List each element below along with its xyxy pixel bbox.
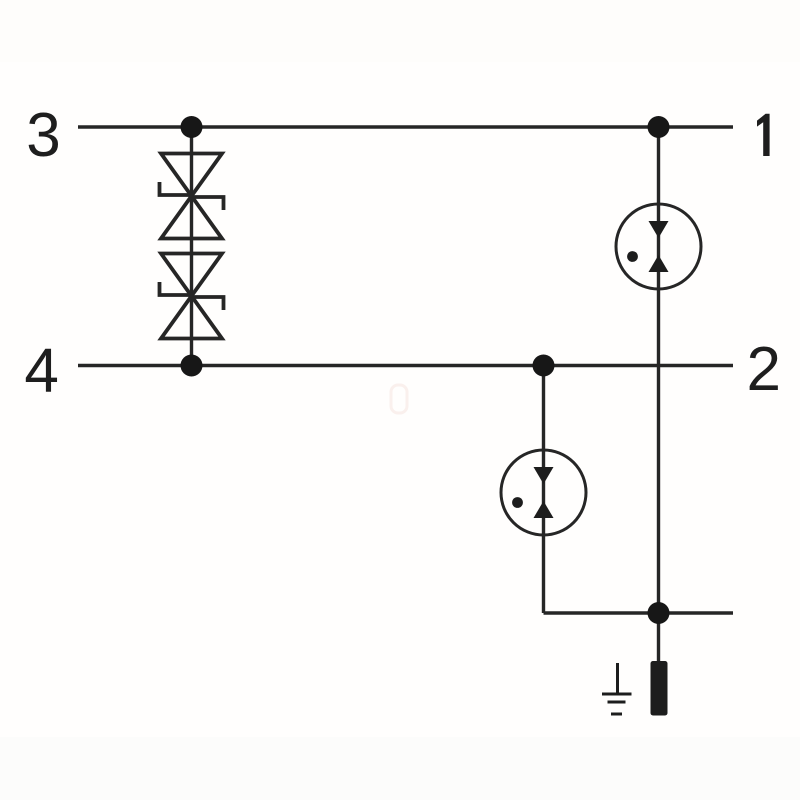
electrode bar: [651, 661, 668, 716]
wire: vertical through lower arrester: [542, 366, 545, 614]
wire: right vertical net 1 to bottom: [657, 127, 660, 613]
svg-text:2: 2: [747, 335, 781, 404]
junction node 1: [648, 116, 670, 138]
gas discharge tube F1 (top right): [616, 204, 701, 289]
wire: second horizontal net 4-2: [78, 364, 733, 367]
suppressor diode D2 (bidirectional TVS): [160, 254, 224, 339]
node label 1: [757, 114, 770, 156]
junction node bottom: [648, 602, 670, 624]
wire: vertical through TVS chain: [190, 127, 193, 366]
svg-text:4: 4: [24, 337, 58, 406]
junction node 3/D1: [181, 116, 203, 138]
ground: [602, 663, 632, 714]
gas discharge tube F2 (lower): [501, 450, 586, 535]
suppressor diode D1 (bidirectional TVS): [160, 154, 224, 239]
wire: stub to electrode: [657, 613, 660, 662]
wire: top horizontal net 3-1: [78, 125, 733, 128]
svg-text:3: 3: [26, 101, 60, 170]
junction node 2/F2: [533, 355, 555, 377]
wire: bottom horizontal: [544, 611, 734, 614]
junction node 4/D2: [181, 355, 203, 377]
